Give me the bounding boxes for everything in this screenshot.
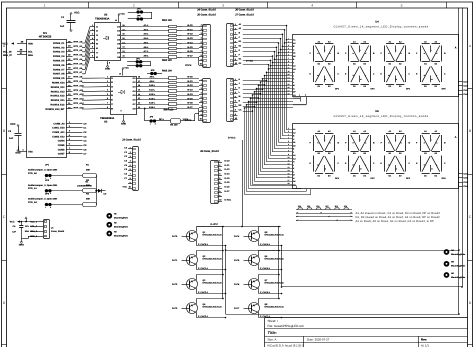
svg-text:17: 17 (288, 89, 290, 92)
svg-text:6: 6 (288, 143, 289, 146)
svg-text:12: 12 (288, 163, 290, 166)
svg-text:ROW15_K13_INT: ROW15_K13_INT (45, 108, 65, 111)
svg-text:DTB113ZCA3CTL16: DTB113ZCA3CTL16 (265, 234, 285, 237)
svg-text:D-VCC: D-VCC (211, 223, 219, 226)
svg-text:L: L (365, 163, 366, 166)
svg-text:R4 120: R4 120 (170, 124, 178, 127)
svg-text:D1, D2 shared on Row4, A1 on R: D1, D2 shared on Row4, A1 on Row7, A2 on… (356, 216, 441, 219)
svg-text:L: L (330, 163, 331, 166)
svg-text:13: 13 (288, 166, 290, 169)
svg-text:ROW8_K9: ROW8_K9 (53, 77, 65, 80)
svg-text:B-C0: B-C0 (187, 24, 193, 27)
svg-text:A6-L: A6-L (144, 46, 150, 49)
svg-text:GND: GND (15, 152, 21, 155)
svg-text:ROW0_K1: ROW0_K1 (53, 42, 65, 45)
svg-text:4: 4 (288, 137, 289, 140)
svg-text:U5: U5 (375, 110, 379, 113)
svg-text:RTR_A1: RTR_A1 (74, 45, 83, 48)
svg-text:ROW10_K11: ROW10_K11 (51, 86, 66, 89)
svg-text:COM4: COM4 (58, 140, 65, 143)
svg-text:CA2: CA2 (464, 85, 469, 88)
svg-text:18: 18 (288, 93, 290, 96)
svg-text:TBD62083A: TBD62083A (95, 17, 110, 20)
svg-text:A8-L: A8-L (144, 55, 150, 58)
svg-text:TBD62083A: TBD62083A (100, 117, 115, 120)
svg-text:18: 18 (288, 182, 290, 185)
svg-text:MountingHole: MountingHole (114, 217, 129, 220)
svg-text:9: 9 (288, 63, 289, 66)
svg-text:2: 2 (155, 123, 156, 126)
svg-text:D-C3: D-C3 (172, 307, 178, 310)
svg-text:L: L (365, 74, 366, 77)
svg-text:J6 Conn_01x10: J6 Conn_01x10 (235, 8, 254, 11)
svg-text:B-C1: B-C1 (187, 28, 193, 31)
svg-text:SolderJumper_3_Open 39K: SolderJumper_3_Open 39K (28, 169, 58, 172)
svg-text:RTR_A2: RTR_A2 (74, 49, 83, 52)
svg-text:ROW4_K5: ROW4_K5 (53, 60, 65, 63)
svg-text:10: 10 (119, 73, 121, 76)
svg-text:3: 3 (288, 44, 289, 47)
svg-text:U4: U4 (375, 20, 379, 23)
svg-text:A3-L: A3-L (144, 33, 150, 36)
svg-text:J9 Conn_01x10: J9 Conn_01x10 (200, 150, 219, 153)
svg-text:CA3: CA3 (464, 181, 469, 184)
svg-text:D1: D1 (293, 141, 295, 144)
svg-text:G2: G2 (293, 68, 296, 71)
svg-text:KiCad E.D.A. kicad (5.1.5)-3: KiCad E.D.A. kicad (5.1.5)-3 (268, 343, 305, 347)
svg-text:COM2_A11: COM2_A11 (52, 131, 65, 134)
svg-text:13: 13 (288, 76, 290, 79)
svg-text:C: C (3, 215, 6, 219)
svg-text:A8-L: A8-L (150, 76, 156, 79)
svg-text:J: J (293, 74, 294, 77)
svg-text:D-C5: D-C5 (225, 181, 231, 184)
svg-text:SDA: SDA (25, 230, 30, 233)
svg-text:B-C2: B-C2 (187, 33, 193, 36)
svg-text:A2: A2 (293, 131, 295, 134)
svg-text:U2: U2 (104, 14, 108, 17)
svg-text:RN4 120: RN4 120 (164, 109, 174, 112)
svg-text:1uF: 1uF (60, 25, 65, 28)
svg-text:15: 15 (288, 83, 290, 86)
svg-text:RTR_A0: RTR_A0 (28, 172, 37, 175)
svg-text:COM6: COM6 (58, 148, 65, 151)
svg-text:9: 9 (120, 110, 121, 113)
svg-text:VCC: VCC (125, 67, 130, 70)
svg-text:3: 3 (288, 133, 289, 136)
svg-text:C: C (469, 215, 472, 219)
svg-text:D-VCC: D-VCC (246, 59, 253, 62)
svg-text:1: 1 (45, 206, 46, 209)
svg-text:5: 5 (401, 4, 403, 8)
svg-text:D-C6: D-C6 (225, 186, 231, 189)
svg-text:ROW5_K6: ROW5_K6 (53, 64, 65, 67)
svg-text:VCC: VCC (123, 186, 128, 189)
svg-text:D2: D2 (293, 144, 295, 147)
svg-text:A9-L: A9-L (150, 80, 156, 83)
svg-text:COM7: COM7 (58, 153, 65, 156)
svg-text:VSS: VSS (28, 151, 33, 154)
svg-text:A13-L: A13-L (149, 97, 156, 100)
svg-text:ROW6_K7: ROW6_K7 (53, 68, 65, 71)
svg-text:Id: 1/1: Id: 1/1 (421, 343, 429, 347)
svg-text:RTR_A4: RTR_A4 (74, 58, 83, 61)
svg-text:J7 Conn_01x10: J7 Conn_01x10 (235, 14, 254, 17)
svg-text:D-C2: D-C2 (172, 283, 178, 286)
svg-text:A: A (455, 47, 457, 50)
svg-text:COM3_K12: COM3_K12 (52, 135, 65, 138)
svg-text:SDA: SDA (28, 54, 33, 57)
svg-text:Title:: Title: (268, 330, 278, 335)
svg-text:D-VCC: D-VCC (228, 137, 236, 140)
svg-text:U3: U3 (104, 121, 108, 124)
svg-text:A2: A2 (293, 42, 295, 45)
svg-text:ROW9_K10: ROW9_K10 (52, 82, 65, 85)
svg-text:L: L (401, 74, 402, 77)
svg-text:A2-L: A2-L (144, 28, 150, 31)
svg-text:2: 2 (288, 130, 289, 133)
svg-text:A: A (455, 136, 457, 139)
svg-text:RN2 120: RN2 120 (162, 59, 172, 62)
svg-text:J3 Conn_01x10: J3 Conn_01x10 (122, 139, 141, 142)
svg-text:b: b (305, 94, 306, 97)
svg-text:L: L (436, 74, 437, 77)
svg-text:D-C6: D-C6 (234, 283, 240, 286)
svg-text:8: 8 (288, 60, 289, 63)
svg-text:G1: G1 (293, 154, 296, 157)
svg-text:ROW3_K4: ROW3_K4 (53, 55, 65, 58)
svg-text:A1 on Row5, A2 on Row1, G1 on: A1 on Row5, A2 on Row1, G1 on Row4, G2 o… (356, 220, 435, 223)
svg-text:B-C4: B-C4 (187, 41, 193, 44)
svg-text:L: L (401, 163, 402, 166)
svg-text:DTB113ZCA3CTL16: DTB113ZCA3CTL16 (203, 282, 223, 285)
svg-text:1: 1 (288, 127, 289, 130)
svg-text:1: 1 (150, 123, 151, 126)
svg-text:COM0_A0: COM0_A0 (53, 122, 65, 125)
svg-text:9: 9 (288, 153, 289, 156)
svg-text:14: 14 (288, 169, 290, 172)
svg-text:A1, A2 shared on Row1, G1 on R: A1, A2 shared on Row1, G1 on Row6, D2 on… (356, 212, 441, 215)
svg-text:ROW12_K13: ROW12_K13 (51, 95, 66, 98)
svg-text:39K: 39K (86, 198, 90, 201)
svg-text:D-C5: D-C5 (234, 259, 240, 262)
svg-text:HT16K33: HT16K33 (39, 35, 52, 39)
svg-text:A5-L: A5-L (144, 41, 150, 44)
svg-text:J: J (239, 82, 240, 85)
svg-text:ROW11_K12: ROW11_K12 (51, 90, 66, 93)
svg-text:6: 6 (288, 54, 289, 57)
svg-text:SCL: SCL (28, 51, 33, 54)
svg-text:B-C1: B-C1 (187, 80, 193, 83)
svg-text:10: 10 (288, 67, 290, 70)
svg-text:RTR_A1: RTR_A1 (28, 187, 37, 190)
svg-text:A12-L: A12-L (149, 93, 156, 96)
svg-text:CA4: CA4 (464, 185, 469, 188)
svg-text:D2: D2 (293, 55, 295, 58)
svg-text:L: L (436, 163, 437, 166)
svg-text:7: 7 (288, 57, 289, 60)
svg-text:File: GeeekPi5SegLED.sch: File: GeeekPi5SegLED.sch (268, 324, 305, 328)
svg-text:RTR_A5: RTR_A5 (74, 62, 83, 65)
svg-text:J: J (293, 164, 294, 167)
svg-text:5: 5 (288, 140, 289, 143)
svg-text:A1: A1 (293, 128, 295, 131)
svg-text:RTR_A9: RTR_A9 (74, 80, 83, 83)
svg-text:MountingHole: MountingHole (114, 226, 129, 229)
svg-text:12: 12 (288, 73, 290, 76)
svg-text:A15-L: A15-L (149, 106, 156, 109)
svg-text:A14-L: A14-L (149, 102, 156, 105)
svg-text:RTR_A6: RTR_A6 (74, 67, 83, 70)
svg-text:D-C1: D-C1 (172, 259, 178, 262)
svg-text:7: 7 (288, 146, 289, 149)
svg-text:D-C3: D-C3 (225, 172, 231, 175)
svg-text:2: 2 (50, 206, 51, 209)
svg-text:D-C1: D-C1 (225, 164, 231, 167)
svg-text:ROW14_K12: ROW14_K12 (51, 104, 66, 107)
svg-text:14: 14 (288, 80, 290, 83)
svg-text:LM4040WSTB: LM4040WSTB (77, 185, 92, 188)
svg-text:B-C6: B-C6 (187, 50, 193, 53)
svg-text:RN3 100: RN3 100 (162, 70, 172, 73)
svg-text:MountingHole: MountingHole (114, 234, 129, 237)
svg-text:B-C0: B-C0 (187, 76, 193, 79)
svg-text:SDA_27: SDA_27 (3, 54, 13, 57)
svg-text:MountingHole: MountingHole (451, 276, 466, 279)
svg-text:1: 1 (44, 4, 46, 8)
svg-text:J4 Conn_01x10: J4 Conn_01x10 (197, 8, 216, 11)
svg-text:D1: D1 (293, 52, 295, 55)
svg-text:1uF: 1uF (9, 137, 14, 140)
svg-text:Sheet: /: Sheet: / (268, 319, 279, 323)
svg-text:J5 Conn_01x10: J5 Conn_01x10 (197, 14, 216, 17)
svg-text:RTR_A3: RTR_A3 (74, 54, 83, 57)
svg-text:RTR_A2: RTR_A2 (28, 201, 37, 204)
svg-text:2: 2 (288, 41, 289, 44)
svg-text:A1: A1 (293, 39, 295, 42)
svg-text:5: 5 (288, 50, 289, 53)
svg-text:11: 11 (288, 70, 290, 73)
svg-text:VCC: VCC (10, 123, 16, 126)
svg-text:VCC: VCC (2, 43, 7, 46)
svg-text:A4-L: A4-L (144, 37, 150, 40)
svg-text:B-C7: B-C7 (187, 55, 193, 58)
svg-text:1: 1 (288, 37, 289, 40)
svg-text:B-C5: B-C5 (187, 97, 193, 100)
svg-text:D: D (3, 301, 6, 305)
svg-text:D-C4: D-C4 (234, 235, 240, 238)
svg-text:D-C2: D-C2 (225, 168, 231, 171)
svg-text:CA2: CA2 (464, 177, 469, 180)
svg-text:8: 8 (288, 150, 289, 153)
svg-text:15: 15 (288, 172, 290, 175)
svg-text:A1-L: A1-L (144, 24, 150, 27)
svg-text:D-C4: D-C4 (225, 177, 231, 180)
svg-text:MountingHole: MountingHole (451, 253, 466, 256)
svg-text:CA3: CA3 (464, 89, 469, 92)
svg-text:GND: GND (121, 123, 127, 126)
svg-text:VDD: VDD (28, 43, 33, 46)
svg-text:ROW1_K2: ROW1_K2 (53, 46, 65, 49)
svg-text:VCC: VCC (10, 220, 15, 223)
svg-text:4: 4 (311, 4, 313, 8)
svg-text:G2U957_Green_14_segment_LED_Di: G2U957_Green_14_segment_LED_Display_comm… (333, 115, 428, 118)
svg-text:DTB113ZCA3CTL16: DTB113ZCA3CTL16 (203, 258, 223, 261)
svg-text:RTR_A8: RTR_A8 (74, 76, 83, 79)
svg-text:CA4: CA4 (464, 93, 469, 96)
svg-text:G2: G2 (293, 157, 296, 160)
svg-text:D-C0: D-C0 (225, 159, 231, 162)
svg-text:B-C5: B-C5 (187, 46, 193, 49)
svg-text:B-C6: B-C6 (187, 102, 193, 105)
svg-text:10: 10 (288, 156, 290, 159)
svg-text:11: 11 (288, 159, 290, 162)
svg-text:GND: GND (19, 243, 25, 246)
svg-text:Conn_01x04: Conn_01x04 (51, 230, 65, 233)
svg-text:COM5: COM5 (58, 144, 65, 147)
svg-text:RTR_A0: RTR_A0 (74, 40, 83, 43)
svg-text:D-C7: D-C7 (234, 307, 240, 310)
svg-text:D-C0: D-C0 (172, 235, 178, 238)
svg-text:DTB113ZCA3CTL16: DTB113ZCA3CTL16 (203, 306, 223, 309)
svg-text:2: 2 (50, 192, 51, 195)
svg-text:RN1 100: RN1 100 (162, 19, 172, 22)
svg-text:ROW13_K11: ROW13_K11 (51, 99, 66, 102)
svg-text:GND: GND (105, 68, 111, 71)
svg-text:17: 17 (288, 179, 290, 182)
svg-text:SCL_26: SCL_26 (3, 50, 12, 53)
svg-text:Rev:: Rev: (421, 337, 427, 341)
svg-text:B-C3: B-C3 (187, 89, 193, 92)
svg-text:CA1: CA1 (464, 81, 469, 84)
svg-text:MountingHole: MountingHole (451, 265, 466, 268)
svg-text:DTB113ZCA3CTL16: DTB113ZCA3CTL16 (265, 306, 285, 309)
svg-text:2: 2 (133, 4, 135, 8)
svg-text:VCC4: VCC4 (185, 64, 192, 67)
svg-text:SolderJumper_3_Open 39K: SolderJumper_3_Open 39K (28, 198, 58, 201)
svg-text:B-C7: B-C7 (187, 106, 193, 109)
svg-text:A7-L: A7-L (144, 50, 150, 53)
svg-text:SolderJumper_3_Open 39K: SolderJumper_3_Open 39K (28, 184, 58, 187)
svg-text:2: 2 (50, 177, 51, 180)
svg-text:VCC4: VCC4 (185, 119, 192, 122)
svg-text:A10-L: A10-L (149, 84, 156, 87)
svg-text:G1: G1 (293, 65, 296, 68)
svg-text:a: a (299, 95, 300, 97)
svg-text:4: 4 (288, 47, 289, 50)
svg-text:B-C2: B-C2 (187, 84, 193, 87)
svg-text:VCC: VCC (121, 13, 126, 16)
svg-text:B-C4: B-C4 (187, 93, 193, 96)
svg-text:RTR_A7: RTR_A7 (74, 71, 83, 74)
svg-text:16: 16 (288, 86, 290, 89)
svg-text:VCC: VCC (74, 12, 80, 15)
svg-text:ROW7_K8: ROW7_K8 (53, 73, 65, 76)
svg-text:Date: 2020-07-27: Date: 2020-07-27 (307, 337, 330, 341)
svg-text:CA1: CA1 (464, 173, 469, 176)
svg-text:VCC_1: VCC_1 (30, 220, 38, 223)
svg-text:D-VCC: D-VCC (225, 199, 232, 202)
svg-text:10: 10 (115, 19, 117, 22)
svg-text:D: D (469, 301, 472, 305)
svg-text:B-C3: B-C3 (187, 37, 193, 40)
svg-text:D-C7: D-C7 (225, 190, 231, 193)
svg-text:DTB113ZCA3CTL16: DTB113ZCA3CTL16 (203, 234, 223, 237)
svg-text:L: L (330, 74, 331, 77)
svg-text:3: 3 (222, 4, 224, 8)
svg-text:ROW2_K3: ROW2_K3 (53, 51, 65, 54)
svg-text:Size: A: Size: A (268, 337, 277, 341)
svg-text:COM1_K10: COM1_K10 (52, 127, 65, 130)
svg-text:G2U957_Green_14_segment_LED_Di: G2U957_Green_14_segment_LED_Display_comm… (333, 26, 428, 29)
svg-text:39K: 39K (86, 169, 90, 172)
svg-text:A11-L: A11-L (149, 89, 156, 92)
svg-text:16: 16 (288, 176, 290, 179)
